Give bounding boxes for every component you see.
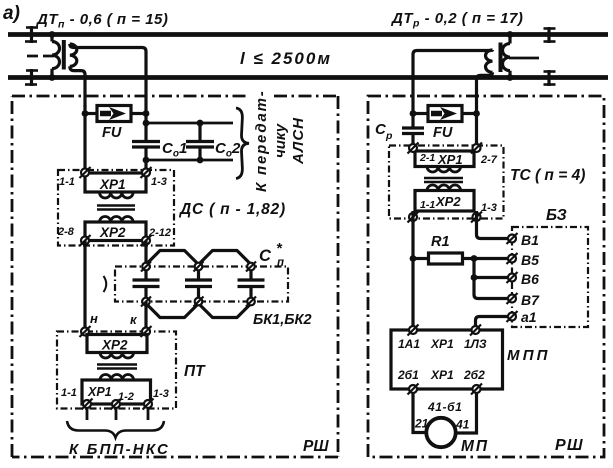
resistor R1 [413, 253, 474, 264]
svg-text:ТС ( п = 4): ТС ( п = 4) [510, 167, 585, 184]
transformer DTp primary winding (left choke) [52, 35, 60, 78]
svg-text:ХР2: ХР2 [99, 225, 126, 240]
pin 2-12 terminal of DS XP2 [141, 235, 152, 246]
svg-text:FU: FU [102, 125, 122, 141]
svg-text:В1: В1 [521, 232, 539, 248]
wire DTp secondary bottom lead to node LA [70, 66, 85, 107]
svg-text:р: р [385, 130, 393, 142]
enclosure PT transformer sub-box (dash-dot) [57, 332, 176, 409]
transformer DTr secondary winding [486, 50, 493, 72]
junction FU right at node LB [143, 110, 150, 117]
pin 1-1 terminal of DS XP1 [80, 167, 91, 178]
pin 1-3 terminal of TS XP2 [471, 212, 482, 223]
svg-text:ХР2: ХР2 [435, 194, 461, 209]
transformer DTr primary winding (right choke) [503, 35, 511, 78]
junction Cd1 bottom [143, 157, 150, 164]
terminal cap3 top [246, 262, 256, 272]
enclosure DS transformer sub-box (dash-dot) [58, 170, 174, 246]
pin 1A1 terminal of MPP [408, 325, 419, 336]
svg-text:ХР2: ХР2 [101, 338, 128, 353]
fuse FU left [85, 106, 146, 122]
svg-text:К передат-: К передат- [253, 89, 270, 192]
rail 1 (top running rail) [8, 32, 608, 37]
wire DTr secondary bottom lead to node RB [477, 72, 493, 107]
wire node RA vertical to Cp [411, 107, 414, 128]
junction Cd2 top [197, 120, 204, 127]
jumper strap bottom 1-2 [147, 305, 198, 318]
svg-text:1-3: 1-3 [481, 202, 497, 214]
wire DTp secondary top lead to node LB [70, 44, 146, 105]
transformer TS upper winding [427, 167, 461, 173]
svg-text:п: п [277, 257, 284, 269]
svg-text:1-2: 1-2 [118, 391, 134, 403]
svg-text:С: С [259, 247, 272, 265]
svg-text:2-12: 2-12 [148, 227, 171, 239]
label Cp [375, 121, 393, 142]
transformer PT core [97, 365, 137, 369]
connector XP1 of PT [82, 380, 151, 404]
jumper strap bottom 2-3 [200, 305, 251, 318]
junction R1 left at node RA [410, 255, 417, 262]
pin 2b1 terminal of MPP [408, 384, 419, 395]
enclosure BZ block (dash-dot) [512, 227, 588, 327]
junction FU right at node RB [473, 110, 480, 117]
junction Cd1 top [143, 120, 150, 127]
pin 1-3 terminal of DS XP1 [141, 167, 152, 178]
pin 1-1 terminal of PT XP1 [82, 399, 93, 410]
enclosure capacitor block BK1,BK2 (dash-dot) [115, 267, 288, 302]
transformer DTp secondary winding [70, 44, 77, 66]
capacitor Cp plates [402, 128, 424, 134]
svg-text:2-1: 2-1 [419, 152, 435, 164]
terminal cap2 bottom [194, 297, 204, 307]
insulated joint, rail 2 left [25, 69, 38, 86]
transformer PT lower winding [100, 374, 134, 380]
wire XP2 pin 2-8 down to terminal n [83, 241, 86, 329]
connector XP1 of TS [415, 151, 474, 167]
label Co1 [162, 140, 187, 160]
wire ALSN pair lower conductor [146, 159, 233, 162]
transformer DS core [97, 206, 135, 210]
terminal a1 [507, 311, 518, 322]
junction R1 right [471, 255, 478, 262]
enclosure left cabinet RSh (dash-dot box) [12, 96, 338, 457]
svg-text:ХР1: ХР1 [430, 368, 454, 382]
connector XP1 of DS [85, 173, 146, 192]
wire node LA vertical (x=85) FU to XP1 [83, 105, 86, 168]
transformer TS core [424, 178, 463, 182]
svg-text:В6: В6 [521, 271, 539, 287]
svg-text:а1: а1 [521, 309, 537, 325]
terminal n [80, 326, 91, 337]
terminal cap2 top [194, 262, 204, 272]
capacitor block cap 2 [185, 270, 212, 298]
terminal V6 [507, 272, 518, 283]
connector XP2 of TS [415, 191, 474, 212]
svg-text:В7: В7 [521, 292, 540, 308]
label Cp* capacitor value [259, 240, 284, 269]
svg-text:ХР1: ХР1 [87, 385, 112, 399]
connector block MPP [391, 330, 503, 389]
capacitor Cd2 [186, 123, 214, 160]
wire PT pin 1-1 stub [86, 408, 89, 420]
transformer PT upper winding [100, 353, 134, 359]
svg-text:ХР1: ХР1 [99, 177, 126, 192]
wire MPP pin 2b1 down to motor MP [413, 393, 426, 433]
transformer DTp core [62, 40, 66, 70]
terminal k [141, 326, 152, 337]
svg-text:БЗ: БЗ [546, 207, 567, 224]
svg-text:FU: FU [433, 125, 453, 141]
svg-text:l ≤ 2500м: l ≤ 2500м [240, 49, 332, 68]
svg-text:2-8: 2-8 [57, 226, 75, 238]
insulated joint, rail 1 right [544, 27, 556, 43]
svg-text:В5: В5 [521, 252, 539, 268]
svg-text:ХР1: ХР1 [430, 337, 454, 351]
svg-text:1-3: 1-3 [151, 176, 167, 188]
svg-text:ДТп - 0,6 ( п = 15): ДТп - 0,6 ( п = 15) [35, 11, 168, 31]
wire node LB lower vertical Cd1 to XP1 pin 1-3 [144, 147, 147, 168]
svg-text:1-3: 1-3 [153, 388, 169, 400]
svg-text:2б2: 2б2 [463, 368, 485, 382]
wire node RA below Cp to XP1 pin 2-1 [411, 134, 414, 146]
capacitor block cap 1 [133, 270, 160, 298]
junction V6 branch [471, 274, 478, 281]
svg-text:2б1: 2б1 [397, 368, 419, 382]
junction DTp primary to rail 1 [49, 31, 56, 38]
svg-text:1ЛЗ: 1ЛЗ [464, 337, 487, 351]
pin 1L3 terminal of MPP [470, 325, 481, 336]
wire DTr secondary top lead to node RA [413, 50, 493, 107]
wire down then right to terminal V7 [474, 278, 509, 299]
wire MPP pin 2b2 down to motor MP [456, 393, 477, 433]
svg-text:РШ: РШ [555, 437, 584, 454]
terminal cap1 bottom [141, 297, 151, 307]
pin 2-1 terminal of TS XP1 [408, 143, 419, 154]
transformer DTr core [499, 43, 503, 73]
terminal cap3 bottom [246, 297, 256, 307]
wire terminal a1 left then down to MPP pin 1L3 [476, 317, 509, 328]
wire R1 right to terminal V5 [474, 257, 509, 260]
svg-text:БК1,БК2: БК1,БК2 [253, 312, 312, 328]
junction DTr primary to rail 2 [507, 74, 514, 81]
junction FU right at node RA [410, 110, 417, 117]
fuse FU right [413, 106, 477, 122]
svg-text:ДС ( п - 1,82): ДС ( п - 1,82) [178, 201, 286, 218]
terminal V5 [507, 253, 518, 264]
terminal V7 [507, 293, 518, 304]
svg-text:2-7: 2-7 [480, 154, 498, 166]
connector XP2 of DS [85, 222, 146, 241]
wire XP2 pin 2-12 down to capacitor block [144, 241, 147, 264]
svg-text:ПТ: ПТ [184, 363, 206, 380]
connector XP2 of PT [87, 335, 147, 353]
svg-text:чику: чику [272, 123, 289, 158]
svg-text:РШ: РШ [303, 438, 329, 455]
transformer TS lower winding [427, 185, 461, 191]
svg-text:МП: МП [461, 438, 489, 455]
wire PT pin 1-3 stub [147, 408, 150, 420]
svg-text:МПП: МПП [507, 347, 551, 364]
svg-text:R1: R1 [431, 234, 450, 250]
wire PT pin 1-2 stub [115, 408, 118, 420]
motor MP [426, 418, 455, 447]
label DTp-0,6 (n=15) left choke transformer value [35, 11, 168, 31]
pin 1-1 terminal of TS XP2 [408, 212, 419, 223]
pin 1-2 terminal of PT XP1 [111, 399, 122, 410]
svg-text:АЛСН: АЛСН [290, 117, 307, 165]
svg-text:1А1: 1А1 [398, 337, 420, 351]
wire cap block bottom to terminal k [144, 302, 147, 329]
junction Cd2 bottom [197, 157, 204, 164]
wire DTr midpoint tap (to right) [509, 57, 539, 60]
wire node RB2 XP2 pin 1-3 down then right to terminal V1 [477, 211, 509, 239]
terminal V1 [507, 233, 518, 244]
junction DTr primary to rail 1 [507, 31, 514, 38]
label DTr-0,2 (n=17) right choke transformer value [390, 10, 523, 30]
transformer DS upper winding [100, 193, 134, 199]
svg-text:1-1: 1-1 [420, 199, 435, 211]
brace to ALSN transmitter [236, 108, 249, 179]
jumper strap top 1-2 [147, 251, 198, 264]
pin 2b2 terminal of MPP [471, 384, 482, 395]
svg-text:1-1: 1-1 [59, 176, 75, 188]
pin 2-7 terminal of TS XP1 [471, 143, 482, 154]
wire DTp midpoint tap (dashed, to left) [26, 55, 54, 58]
wire branch to terminal V6 [474, 276, 509, 279]
svg-text:н: н [90, 311, 98, 326]
enclosure TS transformer sub-box (dash-dot) [389, 146, 504, 219]
transformer DS lower winding [100, 216, 134, 222]
junction FU left at node LA [82, 110, 89, 117]
insulated joint, rail 2 right [544, 70, 556, 86]
capacitor Cd1 plates [132, 142, 160, 148]
wire junction down to V6 branch [472, 259, 475, 278]
junction DTp primary to rail 2 [49, 74, 56, 81]
enclosure right cabinet RSh (dash-dot box) [368, 96, 604, 457]
rail 2 (bottom running rail) [8, 75, 608, 80]
wire node RB vertical to XP1 pin 2-7 [475, 107, 478, 145]
svg-text:ХР1: ХР1 [437, 152, 463, 167]
brace to BPP-NKS [67, 421, 164, 438]
svg-text:а): а) [3, 3, 20, 24]
stray paren mark [104, 276, 107, 292]
pin 2-8 terminal of DS XP2 [80, 235, 91, 246]
pin 1-3 terminal of PT XP1 [143, 399, 154, 410]
terminal cap1 top [141, 262, 151, 272]
label Co2 [215, 140, 241, 160]
svg-text:41-б1: 41-б1 [427, 400, 462, 414]
wire node LB vertical (x=146) FU to Cd1 [144, 105, 147, 142]
svg-text:ДТр - 0,2 ( п = 17): ДТр - 0,2 ( п = 17) [390, 10, 523, 30]
wire ALSN pair upper conductor [146, 122, 233, 125]
svg-text:1-1: 1-1 [61, 387, 77, 399]
insulated joint, rail 1 left [25, 26, 38, 43]
svg-text:К БПП-НКС: К БПП-НКС [69, 441, 170, 458]
jumper strap top 2-3 [200, 251, 251, 264]
wire node RA XP2 pin 1-1 down to MPP pin 1A1 [411, 211, 414, 327]
capacitor block cap 3 [238, 270, 265, 298]
